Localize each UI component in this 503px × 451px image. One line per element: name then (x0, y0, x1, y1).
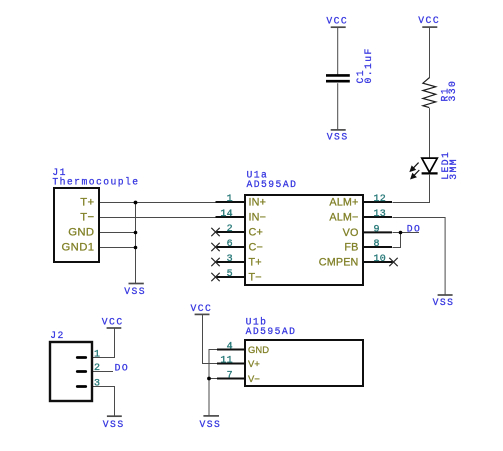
svg-text:1: 1 (94, 349, 100, 360)
svg-text:T+: T+ (80, 196, 94, 208)
svg-text:13: 13 (374, 209, 386, 220)
svg-text:14: 14 (220, 209, 232, 220)
svg-text:VCC: VCC (191, 303, 213, 314)
svg-text:DO: DO (407, 223, 422, 234)
svg-text:3: 3 (94, 378, 100, 389)
svg-text:12: 12 (374, 194, 386, 205)
svg-text:V+: V+ (248, 358, 260, 369)
svg-text:IN+: IN+ (249, 197, 267, 209)
svg-text:CMPEN: CMPEN (319, 257, 359, 269)
svg-text:T+: T+ (249, 257, 262, 269)
svg-text:GND: GND (68, 226, 94, 238)
svg-text:C+: C+ (249, 227, 263, 239)
svg-text:9: 9 (374, 224, 380, 235)
svg-text:T−: T− (249, 272, 262, 284)
svg-text:8: 8 (374, 239, 380, 250)
svg-text:VO: VO (343, 227, 359, 239)
svg-text:V−: V− (248, 373, 260, 384)
svg-text:VCC: VCC (326, 15, 348, 26)
svg-text:VCC: VCC (418, 15, 440, 26)
svg-text:11: 11 (220, 356, 232, 367)
svg-text:3: 3 (227, 254, 233, 265)
svg-text:AD595AD: AD595AD (247, 179, 298, 190)
svg-text:J2: J2 (50, 330, 65, 341)
svg-text:VSS: VSS (433, 297, 455, 308)
svg-text:1: 1 (227, 194, 233, 205)
svg-text:5: 5 (227, 269, 233, 280)
svg-text:VSS: VSS (327, 132, 349, 143)
svg-text:ALM+: ALM+ (329, 197, 358, 209)
svg-text:10: 10 (374, 254, 386, 265)
svg-text:GND1: GND1 (62, 241, 95, 253)
svg-text:330: 330 (447, 80, 458, 102)
svg-text:7: 7 (227, 371, 233, 382)
svg-text:VCC: VCC (102, 317, 124, 328)
svg-text:0.1uF: 0.1uF (363, 47, 374, 83)
svg-text:IN−: IN− (249, 212, 267, 224)
svg-text:Thermocouple: Thermocouple (52, 176, 139, 187)
svg-text:VSS: VSS (200, 419, 222, 430)
svg-text:AD595AD: AD595AD (246, 326, 297, 337)
svg-text:3MM: 3MM (448, 158, 459, 180)
svg-text:ALM−: ALM− (329, 212, 358, 224)
svg-text:DO: DO (115, 363, 130, 374)
svg-text:VSS: VSS (124, 286, 146, 297)
svg-text:2: 2 (227, 224, 233, 235)
svg-text:2: 2 (94, 363, 100, 374)
svg-text:C−: C− (249, 242, 263, 254)
svg-text:T−: T− (80, 211, 94, 223)
svg-text:4: 4 (227, 341, 233, 352)
svg-text:FB: FB (344, 242, 358, 254)
svg-text:GND: GND (248, 344, 269, 355)
svg-text:6: 6 (227, 239, 233, 250)
svg-text:VSS: VSS (103, 419, 125, 430)
